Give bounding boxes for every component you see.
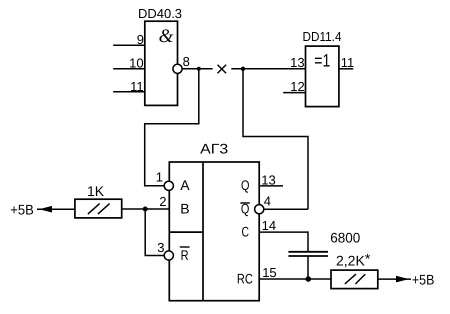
x-mark (connection cross) [218, 65, 227, 74]
wire pin 15 (RC) [259, 278, 331, 280]
arrow to +5V right [396, 276, 409, 283]
one-shot AG3 body [169, 162, 259, 301]
svg-text:4: 4 [264, 193, 271, 208]
wire x-mark to DD11.4 pin 13 [231, 68, 305, 70]
wire pin 13 stub (Q) [259, 185, 283, 187]
svg-text:8: 8 [183, 54, 190, 69]
inversion bubble pin 1 [164, 181, 173, 190]
svg-text:2,2K*: 2,2K* [336, 251, 371, 269]
wire pin 11 input [113, 91, 145, 93]
AG3 inner divider [202, 162, 204, 301]
inversion bubble pin 3 [164, 251, 173, 260]
wire output 8 to x-mark [182, 68, 213, 70]
wire pin 11 output [339, 68, 353, 70]
svg-text:11: 11 [341, 55, 355, 70]
svg-text:R: R [181, 247, 189, 263]
svg-text:15: 15 [262, 265, 276, 280]
resistor R2 2,2K* [331, 270, 378, 289]
wire node down to pin 1 of AG3 [145, 69, 199, 186]
gate DD40.3 (NAND) body [145, 21, 178, 105]
wire capacitor bottom to RC node [307, 256, 309, 279]
svg-text:DD40.3: DD40.3 [138, 6, 182, 21]
wire resistor to +5V arrow [378, 278, 411, 280]
svg-text:9: 9 [137, 32, 144, 47]
junction node after pin 8 [197, 67, 201, 71]
wire node down and across to pin 4 (Q-bar) [243, 69, 308, 209]
inversion bubble pin 8 [173, 64, 182, 73]
svg-text:14: 14 [262, 218, 276, 233]
junction node right of x-mark [241, 67, 245, 71]
svg-text:13: 13 [261, 172, 275, 187]
svg-text:+5В: +5В [412, 272, 435, 288]
svg-text:АГ3: АГ3 [200, 141, 228, 157]
inversion bubble pin 4 [255, 205, 264, 214]
svg-text:A: A [180, 177, 190, 193]
wire pin 10 input [113, 68, 145, 70]
wire resistor to pin 2 [122, 208, 170, 210]
svg-text:&: & [159, 26, 174, 47]
svg-text:12: 12 [290, 79, 304, 94]
svg-text:RC: RC [237, 270, 253, 286]
capacitor C1 plates [288, 252, 328, 256]
port label R with overline [180, 247, 190, 263]
svg-text:6800: 6800 [330, 229, 360, 245]
resistor R1 1K [75, 199, 122, 218]
wire arrow to resistor R1 [52, 208, 75, 210]
svg-text:1K: 1K [87, 183, 105, 199]
wire node down to pin 3 [145, 209, 164, 256]
svg-text:Q: Q [241, 177, 250, 193]
svg-text:2: 2 [159, 194, 166, 209]
junction node RC [306, 276, 312, 282]
svg-text:13: 13 [290, 55, 304, 70]
AG3 left column divider [169, 231, 203, 233]
svg-text:DD11.4: DD11.4 [303, 29, 342, 44]
wire pin 12 stub [283, 92, 305, 94]
svg-text:3: 3 [157, 240, 164, 255]
port label Q-bar with overline [240, 200, 249, 216]
svg-text:=1: =1 [314, 51, 330, 71]
svg-text:C: C [242, 223, 250, 239]
arrow to +5V left [37, 206, 54, 213]
wire pin 9 input [113, 44, 145, 46]
svg-text:B: B [180, 200, 189, 216]
svg-text:10: 10 [129, 56, 143, 71]
svg-text:11: 11 [130, 79, 144, 94]
wire pin 4 to vertical [264, 208, 308, 210]
junction node on pin 2 wire [143, 207, 148, 212]
svg-text:+5В: +5В [10, 202, 34, 218]
gate DD11.4 (XOR) body [306, 46, 339, 107]
svg-text:1: 1 [156, 170, 163, 185]
wire pin 14 (C) to capacitor [259, 232, 308, 251]
